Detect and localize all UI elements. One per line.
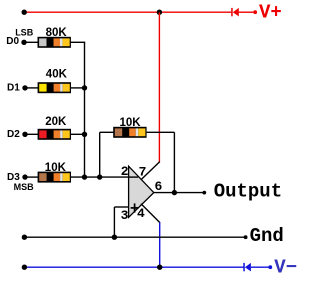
wire D2 right lead (71, 133, 85, 135)
node ground rail left end dot (22, 235, 27, 240)
node ground junction pin 3 (112, 235, 117, 240)
wire D0 right lead (70, 41, 85, 43)
node D2 input dot (22, 132, 27, 137)
wire V- rail segment to terminal dot (251, 266, 269, 268)
wire V+ rail segment to terminal dot (239, 11, 254, 13)
svg-text:Output: Output (214, 180, 282, 202)
V+ connector bar (231, 8, 233, 16)
node output feedback junction (172, 190, 177, 195)
node V- rail left end dot (22, 265, 27, 270)
node junction V+ rail to op-amp supply (157, 10, 162, 15)
svg-text:40K: 40K (46, 69, 68, 81)
svg-text:4: 4 (137, 206, 145, 221)
resistor 80K (D0) (38, 37, 71, 48)
wire feedback left lead (100, 131, 114, 133)
V+ connector triangle (233, 8, 239, 17)
resistor 10K feedback (113, 127, 146, 138)
svg-text:D1: D1 (7, 83, 20, 94)
wire feedback right lead (147, 131, 175, 133)
svg-text:7: 7 (139, 165, 147, 180)
svg-text:3: 3 (121, 208, 129, 223)
wire D3 left lead (25, 176, 38, 178)
wire ground rail (24, 236, 246, 238)
node D1 input dot (22, 85, 27, 90)
wire pin 4 slant (141, 204, 160, 223)
wire D2 left lead (25, 133, 38, 135)
svg-text:D0: D0 (6, 36, 19, 47)
resistor 20K (D2) (38, 129, 71, 140)
wire V- rail (24, 266, 244, 268)
svg-text:20K: 20K (45, 116, 67, 128)
node V+ rail left end dot (22, 10, 27, 15)
svg-text:6: 6 (155, 179, 163, 194)
wire blue vertical pin 4 to V- rail (159, 222, 161, 267)
wire D1 right lead (71, 87, 85, 89)
wire D3 row to op-amp pin 2 with minus stub (71, 176, 138, 178)
wire D0 left lead (24, 41, 38, 43)
wire summing bus vertical (84, 42, 86, 177)
svg-text:MSB: MSB (14, 182, 34, 192)
svg-text:D2: D2 (7, 129, 20, 140)
node V+ terminal dot (253, 10, 257, 14)
wire red vertical from V+ rail to pin 7 (158, 12, 160, 162)
wire feedback tap vertical (99, 132, 101, 177)
wire feedback right vertical to output (173, 132, 175, 192)
resistor 10K (D3) (38, 172, 71, 183)
op-amp plus sign (131, 203, 139, 212)
node D0 input dot (21, 40, 26, 45)
V- connector triangle (245, 263, 251, 272)
op-amp minus stub (pin 2 inverting input) (129, 176, 138, 178)
wire pin 3 vertical to ground (113, 207, 115, 237)
V- connector bar (243, 263, 245, 271)
svg-text:2: 2 (121, 164, 129, 179)
svg-text:Gnd: Gnd (250, 225, 284, 247)
resistor 40K (D1) (38, 82, 71, 93)
node ground terminal dot (244, 235, 248, 239)
svg-text:V−: V− (274, 257, 297, 279)
wire output (154, 192, 204, 194)
node bus junction D2 (82, 132, 87, 137)
wire V+ rail top (24, 11, 232, 13)
wire pin 3 horizontal (114, 206, 129, 208)
wire pin 7 slant (142, 162, 160, 180)
wire D1 left lead (25, 87, 38, 89)
node bus junction D1 (82, 85, 87, 90)
svg-text:V+: V+ (259, 2, 282, 24)
node V- terminal dot (268, 265, 272, 269)
node output terminal dot (202, 191, 206, 195)
node feedback tap junction (97, 174, 102, 179)
node bus junction D3 row (82, 174, 87, 179)
node V- junction op-amp supply (157, 265, 162, 270)
op-amp U1 triangle (129, 166, 154, 217)
node D3 input dot (22, 174, 27, 179)
